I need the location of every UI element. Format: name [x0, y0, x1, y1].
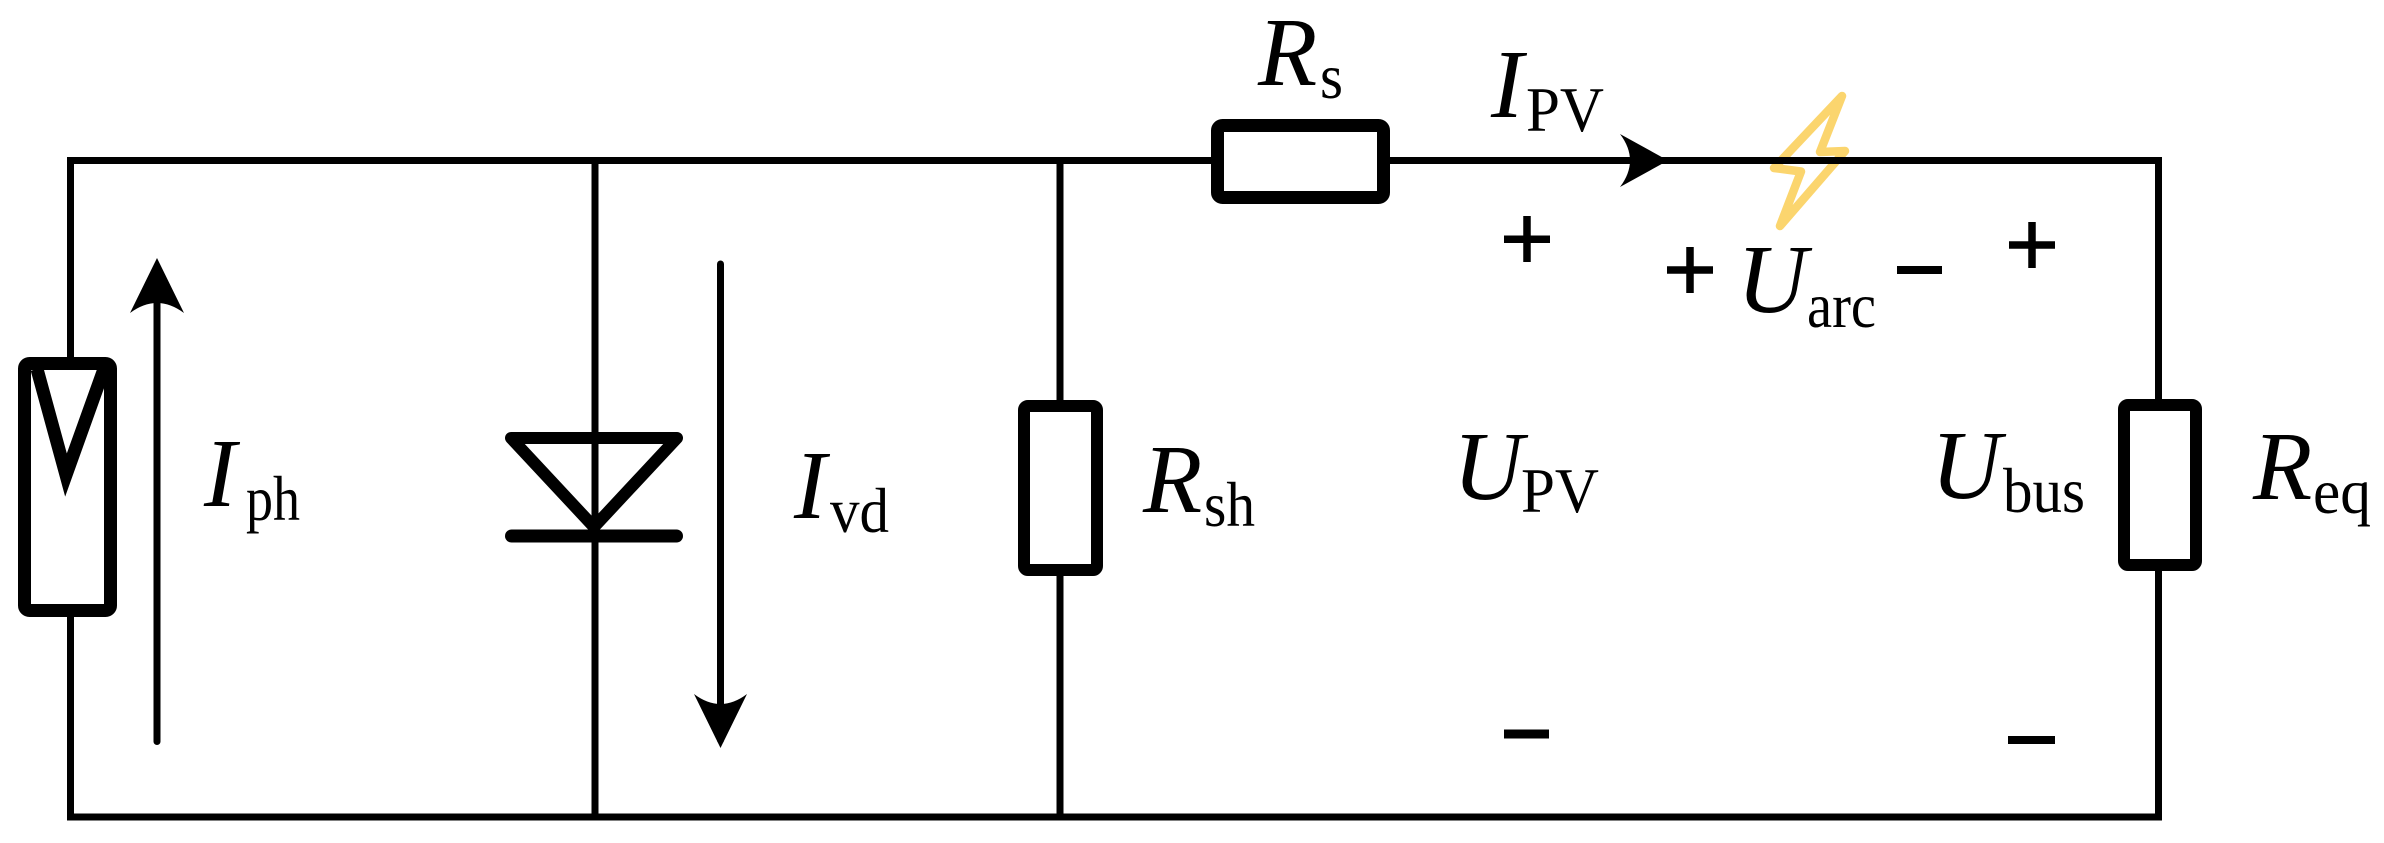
svg-text:bus: bus: [2003, 455, 2085, 526]
svg-text:I: I: [1490, 31, 1528, 138]
svg-text:sh: sh: [1204, 469, 1255, 540]
svg-text:I: I: [203, 420, 241, 527]
svg-text:vd: vd: [830, 475, 889, 546]
svg-text:U: U: [1453, 413, 1529, 520]
svg-text:U: U: [1931, 412, 2007, 519]
svg-text:R: R: [1142, 426, 1202, 533]
svg-text:s: s: [1320, 41, 1343, 112]
svg-text:PV: PV: [1521, 455, 1599, 526]
svg-text:U: U: [1737, 226, 1813, 333]
svg-text:PV: PV: [1526, 74, 1604, 145]
svg-text:ph: ph: [246, 463, 300, 534]
svg-text:R: R: [1257, 0, 1317, 106]
svg-text:eq: eq: [2313, 456, 2371, 527]
svg-text:R: R: [2252, 413, 2312, 520]
svg-text:arc: arc: [1807, 270, 1876, 341]
svg-text:I: I: [793, 432, 831, 539]
